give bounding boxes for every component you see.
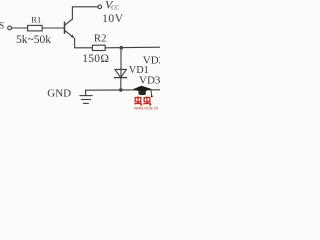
wire junction to diode anode [120, 48, 122, 77]
svg-text:S: S [0, 22, 4, 32]
wire S terminal to R1 [11, 27, 27, 29]
watermark graduation cap [133, 86, 153, 97]
resistor R2 [82, 33, 109, 65]
node junction bottom [119, 88, 123, 92]
svg-text:5k~50k: 5k~50k [16, 34, 51, 46]
node junction top [120, 46, 124, 50]
svg-text:150Ω: 150Ω [82, 53, 109, 65]
svg-text:VD2: VD2 [143, 54, 160, 66]
wire R1 to base [42, 27, 64, 29]
power terminal Vcc [98, 0, 124, 25]
resistor R1 [16, 14, 51, 46]
wire emitter to R2 [75, 39, 93, 48]
wire bottom rail [86, 89, 160, 91]
ground [47, 88, 92, 104]
svg-text:R1: R1 [31, 14, 41, 24]
wire collector to Vcc terminal [72, 7, 98, 19]
svg-text:10V: 10V [102, 13, 124, 25]
svg-text:VD3: VD3 [139, 74, 160, 86]
wire R2 to right edge [105, 46, 160, 49]
node S input terminal [0, 22, 11, 32]
svg-text:CC: CC [111, 6, 119, 12]
svg-text:www.ccdz.cn: www.ccdz.cn [134, 105, 159, 110]
diode VD1 [115, 54, 165, 86]
svg-text:R2: R2 [94, 33, 107, 45]
svg-text:GND: GND [47, 88, 71, 100]
watermark red text 虫虫 [134, 96, 151, 105]
transistor V1 NPN [65, 19, 75, 39]
wire diode cathode to bottom rail [120, 78, 122, 90]
